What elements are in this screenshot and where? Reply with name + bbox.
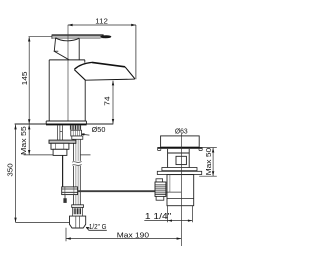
dimension Max 55 left xyxy=(28,125,30,155)
drain flange xyxy=(161,136,200,147)
drain body xyxy=(167,175,194,206)
svg-text:1 1/4": 1 1/4" xyxy=(145,212,172,221)
mounting clamp plate xyxy=(49,140,76,143)
horizontal pop-up rod xyxy=(78,190,157,192)
supply tube xyxy=(74,139,81,205)
svg-text:Max 50: Max 50 xyxy=(204,148,213,176)
dimension 112 top xyxy=(68,25,136,79)
dimension 74 xyxy=(112,81,114,124)
threaded section xyxy=(73,207,83,216)
centre construction line through body xyxy=(67,25,69,121)
dimension 145 left xyxy=(29,37,53,124)
svg-text:Max 55: Max 55 xyxy=(19,126,28,155)
drain centerline xyxy=(180,134,182,246)
svg-text:1/2" G: 1/2" G xyxy=(89,222,107,231)
svg-text:112: 112 xyxy=(95,16,108,25)
svg-text:Ø50: Ø50 xyxy=(92,125,106,134)
svg-text:74: 74 xyxy=(103,96,112,105)
threaded shank hatch below counter xyxy=(70,125,80,129)
pipe break squiggle xyxy=(73,161,81,166)
dimension Max 50 right xyxy=(199,148,217,177)
long stud xyxy=(62,155,64,187)
dimension Max 190 bottom xyxy=(66,238,181,240)
stud rods below counter xyxy=(58,125,63,140)
faucet body xyxy=(49,60,85,121)
counter bottom line xyxy=(24,154,91,156)
hose washer above 1/2 nut xyxy=(72,205,84,208)
drain square boss xyxy=(176,156,186,164)
drain washer band 2 xyxy=(157,171,201,174)
lever tip xyxy=(100,35,111,38)
ribbed rod connector xyxy=(156,179,163,182)
svg-text:350: 350 xyxy=(5,163,14,176)
svg-text:Max 190: Max 190 xyxy=(117,230,149,239)
drain neck xyxy=(168,149,190,168)
label D50 with leader xyxy=(81,133,89,136)
stud end below bracket xyxy=(64,195,66,199)
dimension 350 far left xyxy=(16,125,70,223)
faucet base plate xyxy=(46,121,86,124)
counter top line xyxy=(15,123,114,125)
shank collar xyxy=(72,136,83,139)
pop-up rod bracket xyxy=(62,187,78,195)
mounting nut lower xyxy=(53,149,67,155)
drain locknut band 1 xyxy=(162,168,197,171)
mounting nut upper xyxy=(51,143,69,149)
dimension 1 1/4 inch xyxy=(144,206,192,223)
spout xyxy=(74,62,135,80)
shank upper box xyxy=(71,130,82,136)
1/2 inch G nut xyxy=(70,216,86,228)
svg-text:145: 145 xyxy=(20,72,29,86)
label 1/2" G xyxy=(86,227,107,230)
handle cap xyxy=(54,38,80,60)
faucet handle lever xyxy=(52,35,104,38)
